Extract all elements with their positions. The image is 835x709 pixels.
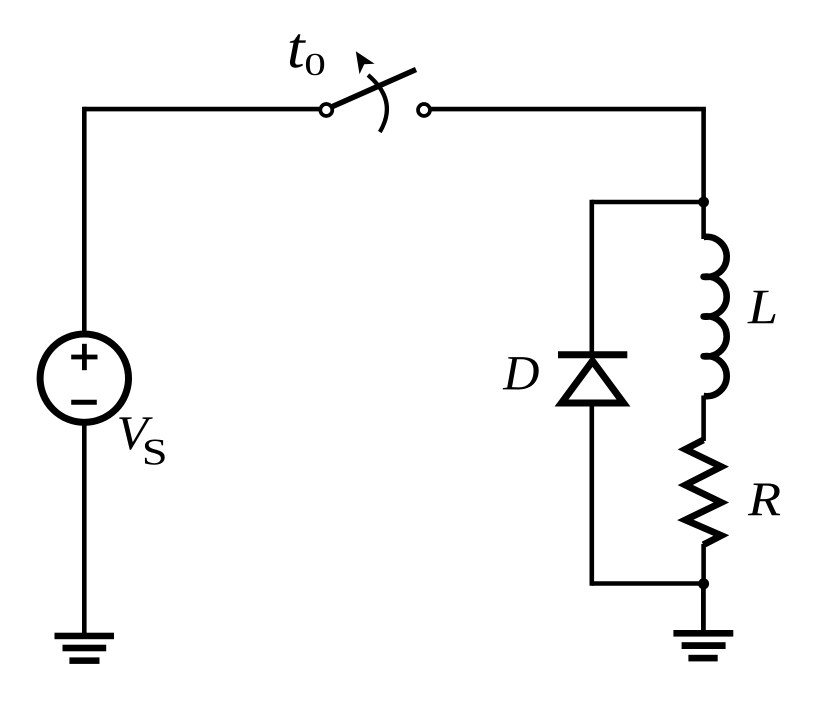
node top junction	[698, 197, 709, 208]
wire top-left horizontal	[84, 107, 319, 112]
inductor L	[704, 202, 727, 441]
wire resistor to node	[701, 544, 706, 584]
wire right vertical upper	[701, 109, 706, 202]
switch opening arc	[368, 75, 387, 132]
label L	[747, 291, 775, 324]
resistor R	[685, 440, 721, 545]
minus sign	[71, 400, 97, 405]
label t0	[290, 34, 306, 67]
wire diode top horizontal	[592, 200, 704, 205]
switch left contact	[320, 104, 332, 116]
switch arrowhead	[356, 51, 375, 74]
label VS	[119, 417, 152, 449]
wire bottom horizontal	[592, 581, 704, 586]
wire node to right ground	[701, 584, 706, 631]
label D	[503, 357, 539, 389]
wire diode vertical lower	[589, 405, 594, 586]
node bottom junction	[698, 578, 709, 589]
ground right	[673, 630, 733, 661]
plus sign	[71, 355, 97, 360]
switch right contact	[418, 104, 430, 116]
label R	[748, 484, 780, 516]
ground left	[55, 633, 115, 664]
wire diode vertical upper	[589, 200, 594, 353]
switch blade	[333, 70, 417, 107]
diode D	[558, 355, 627, 403]
wire top-right horizontal	[431, 107, 706, 112]
wire left vertical	[82, 107, 87, 333]
voltage source VS circle	[40, 334, 128, 422]
wire source to left ground	[82, 422, 87, 635]
